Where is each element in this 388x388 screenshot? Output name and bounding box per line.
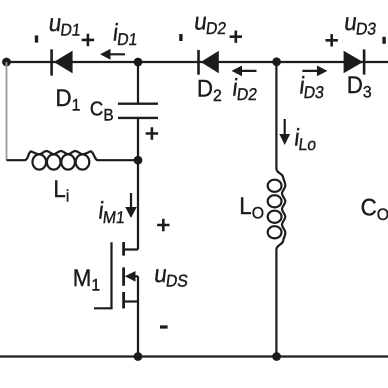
svg-text:Li: Li [53, 175, 69, 205]
MOSFET M1: drain lead [125, 248, 138, 250]
diode D1 (cathode left) [52, 49, 73, 75]
node: L_O / bottom rail junction [272, 352, 281, 361]
svg-text:M1: M1 [73, 264, 100, 294]
svg-text:iM1: iM1 [97, 197, 128, 227]
svg-text:CO: CO [361, 194, 388, 224]
MOSFET M1: body/source connection wire [125, 276, 138, 356]
current arrow i_M1 (down) [125, 193, 137, 218]
diode D3 (cathode right) [344, 49, 365, 74]
plus for u_D2 [230, 31, 242, 43]
node: D1/D2 junction (C_B top) [134, 58, 143, 67]
svg-text:uDS: uDS [152, 260, 190, 290]
wire: left vertical from top rail to L_i [6, 62, 8, 160]
minus for u_DS [160, 325, 168, 328]
bottom return rail wire [0, 355, 388, 357]
current arrow i_D3 (pointing right) [302, 66, 327, 77]
MOSFET M1: channel segments [122, 242, 125, 308]
current arrow i_D2 (pointing left) [232, 66, 257, 77]
svg-text:D3: D3 [347, 71, 372, 101]
svg-text:LO: LO [239, 192, 264, 222]
inductor L_O coil (vertical): connector wire and loop circles [276, 62, 285, 357]
node: top-left junction [2, 58, 11, 67]
wire: C_B top lead [137, 62, 139, 104]
svg-text:iD1: iD1 [111, 19, 140, 49]
wire: C_B bottom lead down to MOSFET drain [137, 118, 139, 250]
MOSFET M1: body arrow (pointing left into channel) [125, 271, 138, 282]
svg-text:iD3: iD3 [298, 72, 327, 102]
plus for u_D1 [82, 34, 94, 46]
svg-text:CB: CB [90, 99, 114, 125]
current arrow i_Lo (down) [279, 119, 290, 145]
MOSFET M1: gate line and gate lead [94, 242, 112, 308]
minus tick for u_D2 [179, 34, 182, 41]
plus for u_DS [157, 219, 169, 231]
capacitor C_B plates [118, 104, 158, 118]
svg-text:D1: D1 [56, 84, 81, 114]
minus tick for u_D3 [382, 37, 385, 44]
inductor L_i coil: scallop wire and loop rings [7, 151, 139, 160]
svg-text:iD2: iD2 [231, 74, 260, 104]
plus for u_D3 [326, 34, 338, 46]
svg-text:D2: D2 [197, 75, 222, 105]
plus for C_B [146, 127, 158, 139]
svg-text:iLo: iLo [293, 124, 319, 154]
node: L_i / C_B junction [134, 156, 143, 165]
diode D2 (cathode left) [199, 50, 219, 75]
svg-text:uD3: uD3 [342, 9, 378, 39]
top supply rail wire [4, 61, 388, 63]
current arrow i_D1 (pointing left) [100, 49, 125, 60]
svg-text:uD2: uD2 [192, 8, 228, 38]
minus tick for u_D1 [35, 35, 38, 42]
node: M1 source / bottom rail junction [134, 352, 143, 361]
node: D2/D3 junction (L_O top) [272, 57, 281, 66]
svg-text:uD1: uD1 [47, 9, 83, 39]
